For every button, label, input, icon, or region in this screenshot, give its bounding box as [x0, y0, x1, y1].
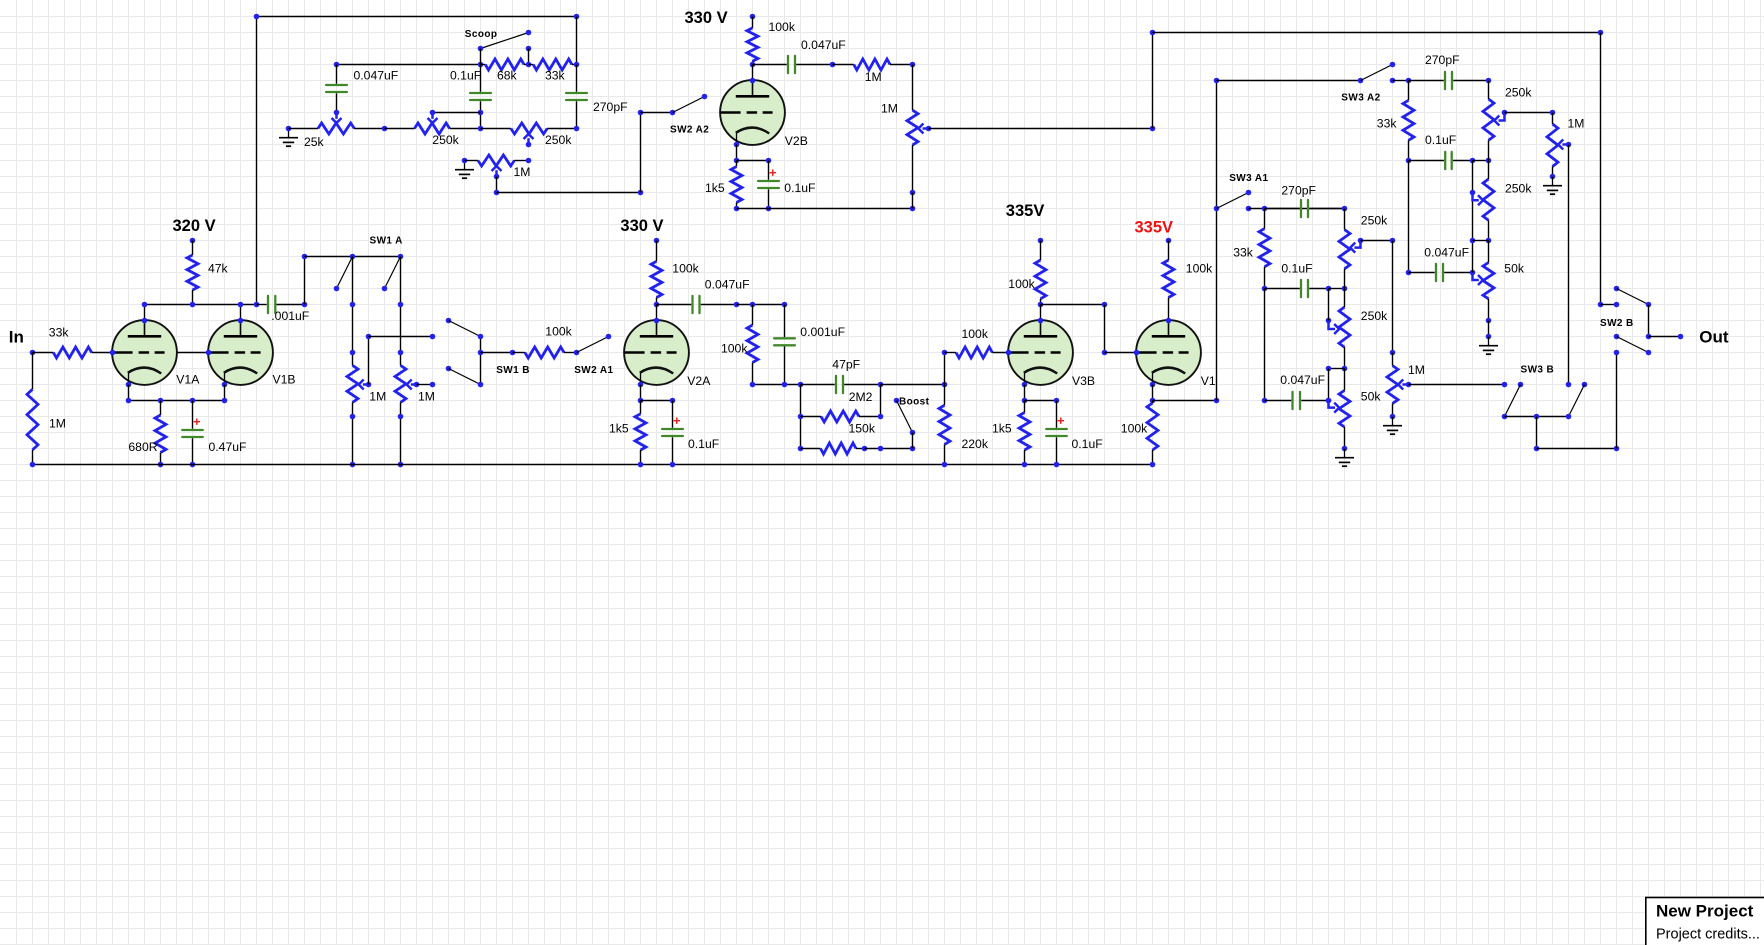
node divider bottom	[782, 382, 788, 388]
svg-text:1M: 1M	[865, 70, 882, 84]
wiper arrow of pot 250k-1	[428, 113, 438, 124]
node pot-b wiper	[414, 382, 420, 388]
node SW3A1 pole (on rail)	[1214, 206, 1220, 212]
triode V1B	[208, 320, 273, 385]
svg-text:100k: 100k	[545, 324, 572, 338]
node 330V supply point	[750, 14, 756, 20]
wire 50k-left top lead	[1344, 369, 1346, 391]
label SW1 B	[496, 365, 530, 376]
wire 250k wiper to 0.1uF column	[433, 112, 481, 114]
svg-text:New Project: New Project	[1656, 902, 1754, 921]
node 150k right	[878, 414, 884, 420]
wire wiper to grid rail	[929, 128, 1153, 130]
node 0.1uF right	[1470, 158, 1476, 164]
label 250k	[432, 133, 459, 147]
node 100k left	[510, 350, 516, 356]
node V2A plate junction	[654, 302, 660, 308]
svg-text:0.047uF: 0.047uF	[705, 278, 750, 292]
node 250k-hi wiper	[1502, 110, 1508, 116]
node 68k/33k junction	[526, 62, 532, 68]
switch SW2 A2 blade	[673, 97, 705, 113]
node cap at rail	[1054, 462, 1060, 468]
label SW3 A2	[1341, 92, 1380, 103]
wire 50k-left bottom lead	[1344, 427, 1346, 449]
svg-text:SW2 A1: SW2 A1	[574, 365, 613, 376]
label 2M2	[849, 390, 873, 404]
node boost pole	[910, 430, 916, 436]
node SW1A left	[302, 254, 308, 260]
wire 250k-lo bottom link	[1473, 240, 1489, 242]
wire vertical rail x=256 down to V1 plate row	[256, 17, 258, 305]
resistor 1k5 (V2A)	[635, 401, 646, 465]
svg-text:47pF: 47pF	[832, 358, 860, 372]
svg-text:0.047uF: 0.047uF	[801, 38, 846, 52]
node SW2A1 pole	[574, 350, 580, 356]
wire rail to SW2B	[1601, 304, 1617, 306]
resistor 1M	[833, 59, 913, 70]
ground (50k left)	[1335, 449, 1354, 467]
wire output riser up	[1616, 353, 1618, 449]
svg-text:0.047uF: 0.047uF	[1280, 373, 1325, 387]
svg-text:SW2 A2: SW2 A2	[670, 124, 709, 135]
node SW1B poles	[478, 350, 484, 356]
svg-text:250k: 250k	[432, 133, 459, 147]
svg-text:330 V: 330 V	[685, 9, 728, 27]
node top-right corner of 1M	[910, 62, 916, 68]
node boost bottom	[878, 446, 884, 452]
node wiper rail at SW3B	[1566, 382, 1572, 388]
node 0.047uF top	[334, 62, 340, 68]
node V1B grid pin	[206, 350, 212, 356]
triode V3B	[1008, 320, 1073, 385]
svg-text:335V: 335V	[1135, 218, 1174, 236]
node SW1A pole 2	[398, 254, 404, 260]
capacitor 47pF	[801, 376, 881, 393]
node scoop 0.047uF bottom / 25k wiper	[334, 110, 340, 116]
wire 1M-right top lead	[1552, 113, 1554, 125]
node wiper tap end	[430, 334, 436, 340]
wire down to 33k/270pF node	[576, 17, 578, 65]
label 33k (mid)	[1233, 246, 1254, 260]
resistor 100k (divider)	[747, 305, 758, 385]
wire 220k top to grid stopper	[944, 353, 946, 385]
label 47pF	[832, 358, 860, 372]
node cap/1M junction	[830, 62, 836, 68]
label SW2 A2	[670, 124, 709, 135]
wire 1M-right bottom lead	[1552, 167, 1554, 177]
capacitor 0.47uF	[182, 401, 203, 465]
svg-text:1k5: 1k5	[992, 421, 1012, 435]
label 0.047uF	[801, 38, 846, 52]
wire SW2A2 pole to pivot	[641, 112, 673, 114]
wire to 220k column	[881, 384, 945, 386]
switch SW2 B blade 1	[1617, 289, 1649, 305]
wire scoop top row y=64	[337, 64, 481, 66]
svg-text:33k: 33k	[545, 69, 566, 83]
svg-text:V1A: V1A	[176, 373, 200, 387]
wire V1B cathode down	[224, 385, 226, 401]
node corner	[1534, 446, 1540, 452]
label 33k (tone)	[1377, 117, 1398, 131]
node divider bottom	[798, 382, 804, 388]
node 330V supply 2	[654, 238, 660, 244]
node V2A plate pin	[654, 318, 660, 324]
capacitor 0.047uF (tone)	[1409, 264, 1473, 281]
ground (scoop 1M pot)	[455, 161, 474, 179]
node grid stopper left	[942, 350, 948, 356]
node SW3 rail top	[1214, 78, 1220, 84]
node V2A cathode pin	[638, 382, 644, 388]
node 250k-A wiper	[1358, 238, 1364, 244]
wire x=1264 down	[1264, 289, 1266, 401]
potentiometer 250k-hi track	[1483, 99, 1494, 140]
svg-text:100k: 100k	[1121, 421, 1148, 435]
node cathode bus	[126, 398, 132, 404]
resistor 1k5 (V3B)	[1019, 401, 1030, 465]
label .001uF	[271, 309, 309, 323]
label 0.1uF (mid)	[1281, 262, 1312, 276]
svg-text:330 V: 330 V	[620, 217, 663, 235]
svg-text:270pF: 270pF	[593, 100, 628, 114]
node x=352	[350, 350, 356, 356]
node bypass top	[670, 398, 676, 404]
label Scoop	[465, 29, 498, 40]
wire boost network left column	[800, 385, 802, 449]
svg-text:0.1uF: 0.1uF	[1072, 437, 1103, 451]
resistor 100k (V2A plate)	[651, 241, 662, 305]
node 1M level wiper	[926, 126, 932, 132]
wire 250k-B bottom lead	[1344, 347, 1346, 368]
capacitor 0.047uF (V2A out)	[657, 296, 737, 313]
resistor 68k	[481, 59, 529, 70]
svg-text:100k: 100k	[769, 20, 796, 34]
node SW2A2 bottom corner	[638, 190, 644, 196]
wire up to SW2 A2 pole	[640, 113, 642, 193]
svg-text:V2B: V2B	[785, 134, 808, 148]
node V3B cathode junction	[1022, 398, 1028, 404]
switch SW1 B blade 1	[449, 321, 481, 337]
node SW2B blade1 top	[1614, 286, 1620, 292]
node 0.47uF at rail	[190, 462, 196, 468]
node SW1B throw 1 (open)	[446, 318, 452, 324]
node 680R at rail	[158, 462, 164, 468]
svg-text:0.1uF: 0.1uF	[1425, 133, 1456, 147]
resistor 33k (tone)	[1403, 81, 1414, 161]
node SW3B bus	[1566, 414, 1572, 420]
node .001uF right	[302, 302, 308, 308]
node wiper corner	[1390, 238, 1396, 244]
svg-text:1M: 1M	[1568, 117, 1585, 131]
node 0.047 left	[1406, 270, 1412, 276]
label V1B	[273, 373, 296, 387]
wiper arrow of 250k-lo	[1473, 193, 1484, 206]
wire V2A cathode down	[640, 385, 642, 401]
node below pot-b	[398, 414, 404, 420]
wire V2B plate lead	[752, 65, 754, 81]
node on 0.1uF lead / 250k wiper wire	[478, 110, 484, 116]
label 100k (V2A plate)	[672, 262, 699, 276]
wire 150k right up	[880, 385, 882, 417]
wire x=1408 down	[1408, 161, 1410, 273]
label SW3 A1	[1229, 173, 1268, 184]
node below pot-a	[350, 414, 356, 420]
node SW3B input	[1502, 382, 1508, 388]
svg-text:68k: 68k	[497, 69, 518, 83]
wire x=400 down to 1M pot	[400, 257, 402, 366]
resistor 100k (V1 plate)	[1163, 241, 1174, 321]
svg-text:100k: 100k	[721, 341, 748, 355]
node SW3A1 throw (open)	[1246, 190, 1252, 196]
node 50k ground	[1486, 334, 1492, 340]
label 680R	[128, 440, 157, 454]
node 47k bottom	[190, 302, 196, 308]
node SW3A1 stub	[1246, 206, 1252, 212]
node SW2 A2 throw (open)	[702, 94, 708, 100]
wire V1A cathode down	[128, 385, 130, 401]
wire 1M pot-a to ground rail	[352, 402, 354, 464]
potentiometer 250k-lo track	[1483, 179, 1494, 220]
potentiometer 1M-b track	[395, 365, 406, 402]
switch SW3 A2 blade	[1361, 65, 1393, 81]
node divider top	[782, 302, 788, 308]
wire 250k-hi bottom lead	[1488, 140, 1490, 160]
resistor 220k	[939, 385, 950, 465]
label 100k (divider)	[721, 341, 748, 355]
node 33k-2 top	[1262, 206, 1268, 212]
label 1M	[865, 70, 882, 84]
capacitor 0.001uF	[774, 305, 795, 385]
node 50k-left bottom	[1342, 446, 1348, 452]
resistor 100k (V2A grid)	[513, 347, 577, 358]
label 1k5 (V3B)	[992, 421, 1012, 435]
resistor 33k (scoop)	[529, 59, 577, 70]
wire 250k-B top lead	[1344, 289, 1346, 308]
node SW3A2 pole	[1358, 78, 1364, 84]
resistor 33k (input)	[33, 347, 113, 358]
wiper arrow of pot 1M level	[918, 124, 928, 134]
node x=400	[398, 302, 404, 308]
label 250k-lo	[1505, 182, 1532, 196]
label 150k	[849, 421, 876, 435]
node below 1M pot	[910, 190, 916, 196]
wire V1 cathode to SW3 rail	[1153, 400, 1217, 402]
node pot-b at rail	[398, 462, 404, 468]
node cathode return right end	[910, 206, 916, 212]
label 0.001uF	[800, 325, 845, 339]
svg-text:270pF: 270pF	[1281, 184, 1316, 198]
svg-text:2M2: 2M2	[849, 390, 873, 404]
svg-text:Out: Out	[1699, 328, 1729, 347]
node 33k right / 270pF top	[574, 62, 580, 68]
wire link	[1329, 288, 1345, 290]
node SW2 A2 pole	[638, 110, 644, 116]
svg-text:100k: 100k	[672, 262, 699, 276]
potentiometer 250k-A track	[1339, 230, 1350, 269]
svg-text:320 V: 320 V	[173, 217, 216, 235]
resistor 33k (mid)	[1259, 209, 1270, 289]
svg-text:1M: 1M	[1408, 363, 1425, 377]
node 250k-2 right end	[574, 126, 580, 132]
svg-text:220k: 220k	[962, 437, 989, 451]
wire down	[1104, 305, 1106, 353]
wire 1M-mid top lead	[1392, 353, 1394, 366]
wire y=208 to 250k-A	[1249, 208, 1345, 210]
wire grid rail up	[1152, 33, 1154, 129]
node V1A cathode pin	[126, 382, 132, 388]
label 1M	[514, 165, 531, 179]
ground (1M mid)	[1383, 417, 1402, 435]
node 335V supply	[1038, 238, 1044, 244]
wire scoop switch pole to 68k node	[480, 49, 482, 65]
switch SW3 B blade 2	[1569, 385, 1585, 417]
label 100k (V1 plate)	[1186, 262, 1213, 276]
triode V2B	[720, 80, 785, 145]
node SW3B blade2 top	[1582, 382, 1588, 388]
wire 250k-hi top lead	[1488, 81, 1490, 100]
node V2B cathode pin	[734, 142, 740, 148]
node SW3B bus	[1534, 414, 1540, 420]
switch SW1 A blade 2	[385, 257, 401, 289]
wiper arrow of pot 25k	[332, 113, 342, 124]
wire pot-a wiper up	[368, 337, 370, 385]
node 1M-right top	[1550, 110, 1556, 116]
potentiometer 250k-1 track	[385, 123, 481, 134]
wire 50k bottom lead	[1488, 299, 1490, 321]
node cathode bus	[158, 398, 164, 404]
node SW3A2 throw (open)	[1390, 62, 1396, 68]
capacitor 0.1uF (V2B bypass)	[758, 161, 779, 209]
wire SW3B bottom bus	[1505, 416, 1569, 418]
label 335V red	[1135, 218, 1174, 236]
node SW1B poles	[478, 334, 484, 340]
wiper arrow of 250k-A	[1350, 241, 1360, 253]
node pot-a at rail	[350, 462, 356, 468]
node SW3 rail bottom	[1214, 398, 1220, 404]
node scoop switch throw (open)	[526, 30, 532, 36]
potentiometer 1M-right track	[1547, 124, 1558, 167]
node 320V supply	[190, 238, 196, 244]
svg-text:V1B: V1B	[273, 373, 296, 387]
svg-text:33k: 33k	[1377, 117, 1398, 131]
svg-text:250k: 250k	[1361, 214, 1388, 228]
label SW2 A1	[574, 365, 613, 376]
node V1B plate pin	[238, 318, 244, 324]
wire cathode to bypass cap	[737, 160, 769, 162]
capacitor 270pF (treble)	[1409, 72, 1489, 89]
potentiometer 1M-a track	[347, 365, 358, 402]
node SW2B common bottom	[1646, 334, 1652, 340]
wire to V1 grid	[1105, 352, 1137, 354]
node 1M-mid bottom	[1390, 414, 1396, 420]
svg-text:V3B: V3B	[1072, 374, 1095, 388]
node 33k bottom	[1406, 158, 1412, 164]
svg-text:V1: V1	[1201, 374, 1216, 388]
label V2A	[687, 374, 711, 388]
capacitor 0.1uF (V3B bypass)	[1046, 401, 1067, 465]
label SW3 B	[1521, 364, 1555, 375]
ground (50k right)	[1479, 337, 1498, 355]
wire x=1392 down	[1392, 241, 1394, 353]
node scoop 1M left end	[462, 158, 468, 164]
wire to bypass	[1025, 400, 1057, 402]
label 0.047uF (tone)	[1424, 246, 1469, 260]
node riser top	[1614, 350, 1620, 356]
wire x=1472 down	[1472, 161, 1474, 273]
wire SW2B common	[1648, 305, 1650, 337]
wire 1M-mid bottom lead	[1392, 404, 1394, 417]
node 250k-lo bottom	[1486, 238, 1492, 244]
node V1 cathode junction	[1150, 398, 1156, 404]
node bypass cap top	[766, 158, 772, 164]
capacitor .001uF	[257, 296, 305, 313]
svg-text:1M: 1M	[418, 390, 435, 404]
node output	[1678, 334, 1684, 340]
wiper arrow of 250k-hi	[1494, 113, 1504, 126]
node SW3B bottom left	[1502, 414, 1508, 420]
wire pot-b wiper stub	[417, 384, 433, 386]
wire 1M pot-b to ground rail	[400, 402, 402, 464]
wire SW1B pole column	[480, 337, 482, 385]
node scoop switch pole	[478, 46, 484, 52]
svg-text:1k5: 1k5	[609, 421, 629, 435]
node bypass top	[1054, 398, 1060, 404]
node top rail right corner	[1598, 30, 1604, 36]
node 220k top	[942, 382, 948, 388]
svg-text:SW1 A: SW1 A	[370, 236, 403, 247]
node boost column	[798, 414, 804, 420]
label 0.047uF (mid)	[1280, 373, 1325, 387]
node 0.047-2 right	[1326, 398, 1332, 404]
label 47k	[208, 262, 229, 276]
node 2M2 right	[862, 446, 868, 452]
resistor 100k (V2B plate)	[747, 17, 758, 65]
node 250k-hi top	[1486, 158, 1492, 164]
svg-text:0.001uF: 0.001uF	[800, 325, 845, 339]
node V3B plate pin	[1038, 318, 1044, 324]
wire boost pole down	[912, 433, 914, 449]
triode V1	[1136, 320, 1201, 385]
wire 50k-left top link	[1329, 368, 1345, 370]
potentiometer 1M-mid track	[1387, 366, 1398, 404]
node after coupling cap	[734, 302, 740, 308]
label 330 V (V2B supply)	[685, 9, 728, 27]
label Out	[1699, 328, 1729, 347]
svg-text:SW2 B: SW2 B	[1600, 318, 1634, 329]
wire y=80 to SW3A2	[1217, 80, 1361, 82]
node SW1A throw 1 (open)	[334, 286, 340, 292]
node V3B cathode pin	[1022, 382, 1028, 388]
node V2B plate pin	[750, 78, 756, 84]
node 250k-2 wiper	[526, 142, 532, 148]
node V3B grid pin	[1006, 350, 1012, 356]
switch SW2 B blade 2	[1617, 337, 1649, 353]
capacitor 0.047uF (mid)	[1265, 392, 1329, 409]
node 50k wiper column top	[1326, 366, 1332, 372]
label 1k5 (V2A)	[609, 421, 629, 435]
node 0.1uF-2 right	[1326, 286, 1332, 292]
svg-text:0.1uF: 0.1uF	[1281, 262, 1312, 276]
node SW2B common top	[1646, 302, 1652, 308]
node 1k5 bottom	[734, 206, 740, 212]
svg-text:In: In	[9, 328, 24, 347]
node pot-a wiper	[366, 382, 372, 388]
node cap at rail	[670, 462, 676, 468]
label 250k-A	[1361, 214, 1388, 228]
node scoop switch stub	[526, 46, 532, 52]
potentiometer 1M (level) track	[907, 110, 918, 145]
label 0.047uF (V2A)	[705, 278, 750, 292]
info box New Project	[1646, 898, 1764, 945]
